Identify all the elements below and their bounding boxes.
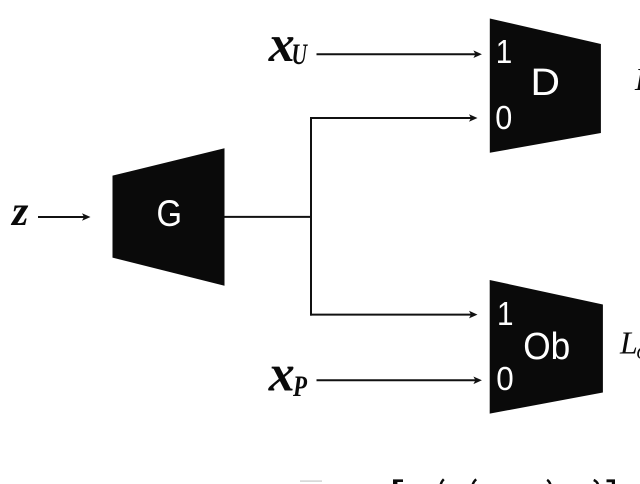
svg-text:0: 0 (495, 99, 512, 136)
svg-text:G: G (157, 193, 183, 234)
svg-text:z: z (10, 189, 29, 235)
svg-text:1: 1 (497, 295, 514, 332)
svg-text:L: L (634, 61, 640, 97)
svg-text:U: U (292, 38, 308, 71)
svg-text:D: D (531, 62, 561, 104)
svg-text:Ob: Ob (523, 326, 570, 368)
svg-text:0: 0 (496, 360, 514, 397)
svg-text:P: P (292, 370, 307, 403)
svg-text:x: x (268, 345, 295, 402)
svg-text:O: O (636, 343, 640, 363)
svg-text:1: 1 (496, 33, 513, 70)
svg-text:L: L (619, 325, 638, 361)
